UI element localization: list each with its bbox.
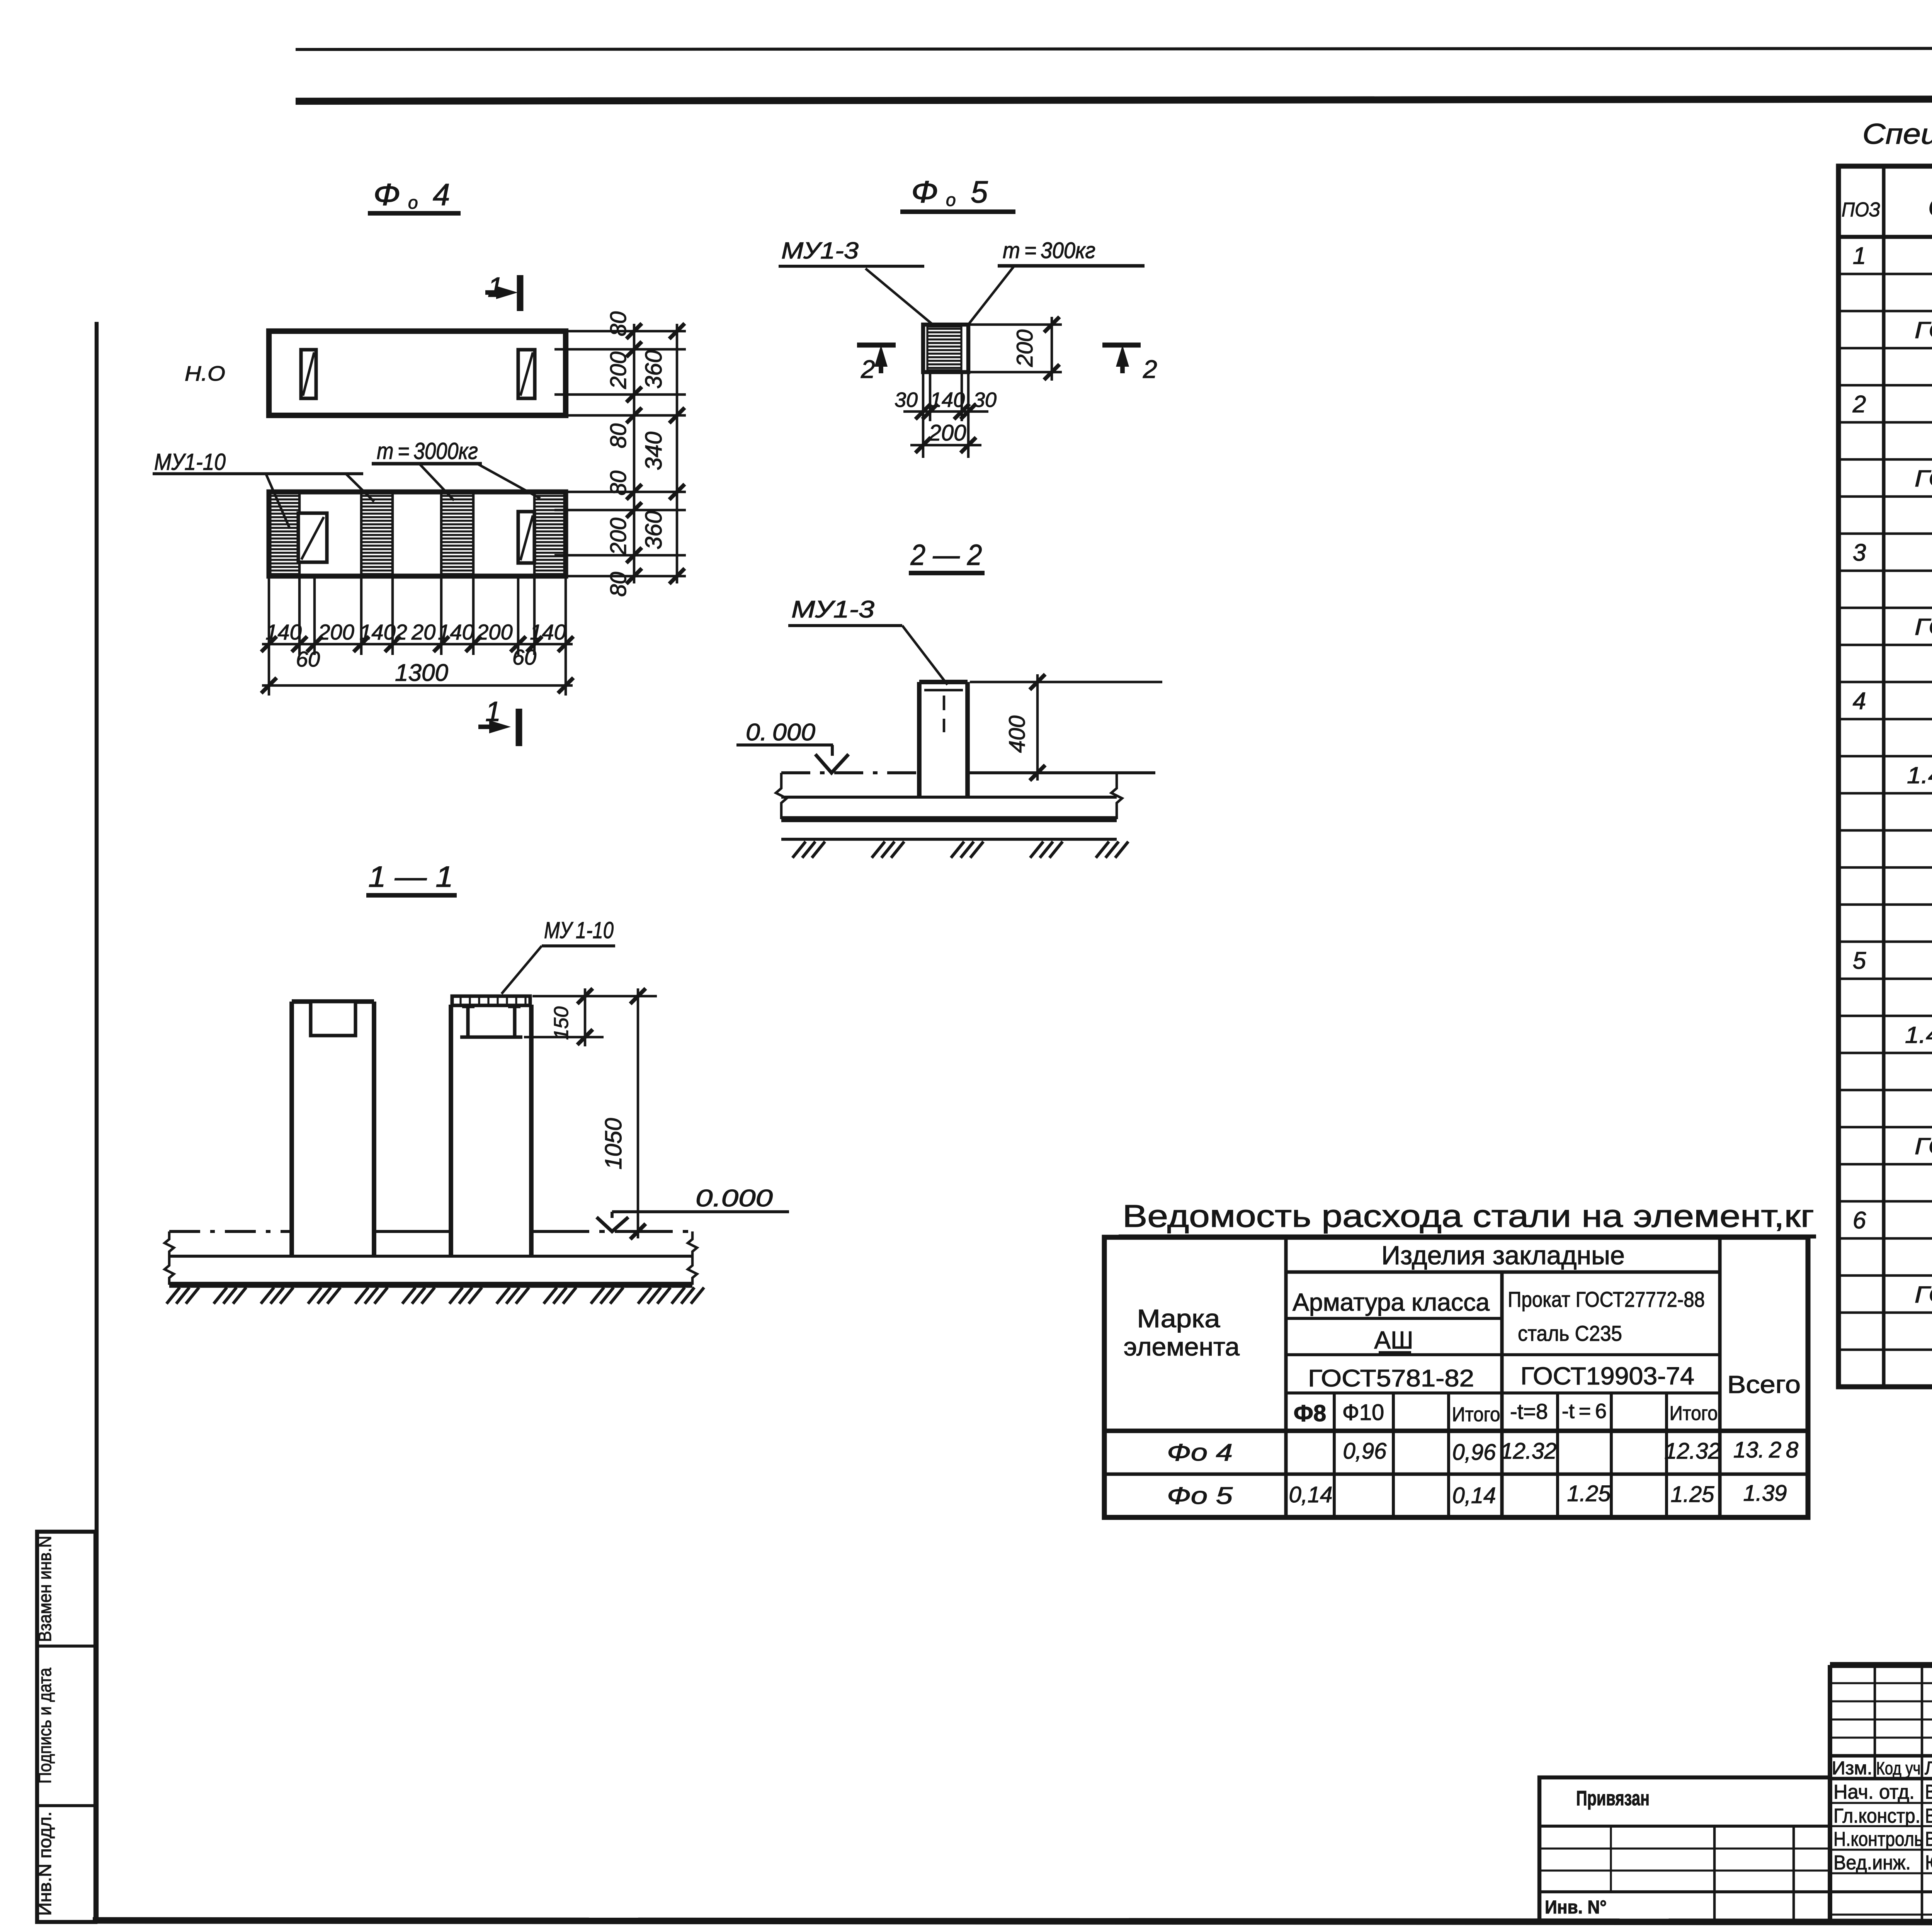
dim 1050 (1-1) (600, 988, 646, 1239)
svg-text:1.25: 1.25 (1567, 1481, 1611, 1506)
svg-text:Прокат ГОСТ27772-88: Прокат ГОСТ27772-88 (1508, 1287, 1705, 1311)
svg-text:Гл.констр.: Гл.констр. (1833, 1805, 1920, 1827)
title block outer frame (1830, 1665, 1932, 1922)
ground hatch (1-1) (167, 1287, 704, 1304)
dim 200 (right of Fo5) (970, 317, 1062, 381)
dim labels 360/340/360 (641, 350, 667, 549)
vedomost header texts (1124, 1241, 1801, 1426)
view title Fo5 (900, 175, 1015, 212)
svg-text:200: 200 (1012, 330, 1037, 367)
privyazan box (1539, 1777, 1830, 1922)
svg-text:30: 30 (973, 388, 997, 412)
svg-text:-t = 6: -t = 6 (1562, 1400, 1607, 1423)
svg-text:ГОСТ 25192 - 82: ГОСТ 25192 - 82 (1915, 1282, 1932, 1308)
view title 1-1 (366, 861, 457, 895)
svg-text:80: 80 (606, 471, 631, 496)
left column (1-1) (292, 1002, 374, 1256)
slab bottom thick line (2-2) (781, 816, 1117, 822)
page frame: top border double line (296, 48, 1932, 101)
vedomost data row Fo4 (1167, 1437, 1798, 1466)
table title: Vedomost raskhoda stali (1119, 1199, 1816, 1236)
svg-text:Взамен инв.N: Взамен инв.N (35, 1536, 55, 1642)
section mark 1 (bottom) (478, 696, 519, 746)
svg-text:360: 360 (641, 511, 667, 549)
svg-text:m = 300кг: m = 300кг (1003, 238, 1095, 263)
svg-text:0,96: 0,96 (1452, 1440, 1497, 1465)
svg-text:Ф: Ф (911, 175, 938, 209)
spec table header texts (1842, 191, 1932, 222)
signature row: Gl.konstr. Vorobyeva (1833, 1805, 1932, 1834)
extension lines below Fo4 lower plan (269, 578, 566, 696)
svg-text:1.25: 1.25 (1671, 1482, 1715, 1507)
svg-text:0,14: 0,14 (1452, 1483, 1496, 1508)
svg-text:Воробьева: Воробьева (1925, 1805, 1932, 1827)
svg-text:140: 140 (359, 620, 395, 644)
svg-text:Ф: Ф (373, 177, 400, 212)
label MU1-10 with leader (1-1) (502, 917, 615, 994)
label MU1-3 with leader (779, 238, 935, 327)
view title Fo4 (368, 177, 461, 213)
svg-text:элемента: элемента (1124, 1332, 1240, 1361)
slab bottom thick line (1-1) (169, 1282, 692, 1288)
slab break marks (2-2) (776, 773, 1122, 819)
svg-text:80: 80 (606, 423, 631, 449)
svg-text:200: 200 (318, 620, 354, 644)
section mark 1 (top) (485, 272, 520, 311)
signature rows grid (1830, 1779, 1932, 1922)
slab top line (2-2) (781, 771, 1155, 774)
svg-text:4: 4 (433, 177, 450, 212)
svg-text:0. 000: 0. 000 (746, 719, 815, 746)
vertical dimension line (360/340/360) (669, 323, 685, 584)
svg-text:140: 140 (438, 620, 474, 644)
svg-text:0,96: 0,96 (1343, 1439, 1387, 1464)
svg-text:80: 80 (606, 311, 631, 337)
level mark 0.000 (2-2) (736, 719, 849, 773)
svg-text:о: о (408, 192, 418, 213)
embedded plate mark (lower plan, right) (518, 512, 534, 563)
revision header labels (1832, 1758, 1932, 1779)
svg-text:АШ: АШ (1374, 1326, 1413, 1354)
extension lines right of Fo4 plans (554, 331, 686, 576)
svg-text:ГОСТ19903-74: ГОСТ19903-74 (1520, 1362, 1694, 1390)
svg-text:сталь С235: сталь С235 (1518, 1321, 1622, 1345)
svg-text:Фо 4: Фо 4 (1167, 1439, 1233, 1466)
signature row: Nach. otd. Vorobyeva (1833, 1781, 1932, 1810)
svg-text:1300: 1300 (395, 660, 448, 686)
svg-text:ГОСТ5781-82: ГОСТ5781-82 (1308, 1365, 1474, 1392)
dims 30/140/30 and 200 below Fo5 (895, 372, 997, 458)
svg-text:5: 5 (971, 175, 988, 209)
revision table small grid (1830, 1665, 1932, 1779)
svg-text:200: 200 (476, 620, 512, 644)
page frame: bottom border (93, 1920, 1932, 1923)
label m=300kg with leader (967, 238, 1145, 327)
svg-text:0,14: 0,14 (1289, 1482, 1333, 1507)
svg-text:ПОЗ: ПОЗ (1842, 199, 1880, 221)
embedded plate mark (upper plan, left) (301, 350, 316, 398)
svg-text:Воробьева: Воробьева (1925, 1781, 1932, 1803)
svg-text:Ф8: Ф8 (1294, 1400, 1327, 1426)
embedded plate mark (lower plan, left) (298, 513, 327, 562)
spec table grid (1838, 166, 1932, 1387)
dim 400 (2-2) (970, 674, 1162, 781)
slab middle line (1-1) (169, 1255, 692, 1258)
svg-text:140: 140 (530, 620, 566, 644)
anchor box in right column (460, 1005, 522, 1037)
svg-text:о: о (946, 190, 956, 210)
embedded plate MU1-10 on right column (452, 996, 530, 1005)
dimension line 1300 (261, 660, 573, 693)
svg-text:Всего: Всего (1727, 1371, 1801, 1398)
dim 150 (1-1) (524, 988, 657, 1046)
svg-text:Подпись и дата: Подпись и дата (35, 1668, 55, 1784)
svg-text:Изм.: Изм. (1832, 1758, 1872, 1779)
svg-text:m = 3000кг: m = 3000кг (377, 438, 478, 464)
svg-text:-t=8: -t=8 (1510, 1399, 1548, 1423)
svg-text:0.000: 0.000 (696, 1185, 773, 1212)
svg-text:140: 140 (930, 388, 965, 412)
svg-text:1050: 1050 (600, 1118, 626, 1169)
svg-text:Итого: Итого (1670, 1402, 1718, 1425)
Fo4 lower plan band (269, 492, 566, 576)
Fo5 plan square (923, 325, 968, 372)
dim labels 60 / 60 (296, 645, 536, 671)
svg-text:1.400.2 - 25.93 Вып. 1: 1.400.2 - 25.93 Вып. 1 (1905, 1022, 1932, 1048)
right column (1-1) (451, 1005, 531, 1256)
svg-text:Арматура класса: Арматура класса (1293, 1288, 1490, 1316)
ground line with hatch (2-2) (781, 839, 1128, 858)
svg-text:Изделия закладные: Изделия закладные (1381, 1241, 1625, 1270)
slab middle line (2-2) (781, 796, 1117, 799)
svg-text:Ведомость расхода стали на эле: Ведомость расхода стали на элемент,кг (1122, 1199, 1814, 1234)
level mark 0.000 (1-1) (597, 1185, 789, 1231)
svg-text:13. 2 8: 13. 2 8 (1733, 1437, 1798, 1463)
svg-text:Итого: Итого (1452, 1403, 1500, 1426)
vertical dimension line (80/200/80) (626, 323, 642, 584)
view title 2-2 (909, 539, 985, 573)
svg-text:ГОСТ 25192 - 82: ГОСТ 25192 - 82 (1915, 317, 1932, 343)
svg-text:Код уч: Код уч (1876, 1758, 1921, 1778)
svg-text:4: 4 (1853, 688, 1866, 714)
left strip boxes (37, 1532, 95, 1922)
svg-text:140: 140 (265, 620, 301, 644)
svg-text:Фо 5: Фо 5 (1167, 1483, 1233, 1509)
label MU1-10 with leader (153, 449, 363, 529)
svg-text:150: 150 (550, 1007, 573, 1040)
svg-text:1: 1 (1853, 243, 1866, 269)
svg-text:12.32: 12.32 (1664, 1439, 1720, 1464)
slab break marks (1-1) (165, 1231, 697, 1285)
svg-text:Привязан: Привязан (1576, 1787, 1650, 1810)
Fo5 hatched plate (927, 327, 961, 370)
svg-text:Обозначение: Обозначение (1928, 192, 1932, 222)
svg-text:Нач. отд.: Нач. отд. (1833, 1781, 1915, 1803)
svg-text:Воробьева: Воробьева (1925, 1828, 1932, 1850)
svg-text:1.400.2 - 25.93 Вып. 1: 1.400.2 - 25.93 Вып. 1 (1907, 762, 1932, 788)
vedomost data row Fo5 (1167, 1481, 1787, 1509)
embedded plate mark (upper plan, right) (518, 350, 535, 398)
svg-text:60: 60 (296, 647, 320, 671)
dim labels 80/200/80 (lower) (606, 471, 631, 597)
section mark 2 (right) (1102, 345, 1157, 383)
svg-text:400: 400 (1005, 716, 1030, 753)
signature row: N.kontrol Vorobyeva (1833, 1828, 1932, 1850)
svg-text:2 — 2: 2 — 2 (910, 539, 982, 571)
svg-text:ГОСТ 25192 -82: ГОСТ 25192 -82 (1915, 614, 1932, 640)
svg-text:2: 2 (861, 355, 875, 383)
svg-text:ГОСТ 25192 - 82: ГОСТ 25192 - 82 (1915, 1133, 1932, 1159)
svg-text:60: 60 (512, 645, 536, 669)
svg-text:ГОСТ 25192 - 82: ГОСТ 25192 - 82 (1915, 466, 1932, 492)
hatched strip 1 (269, 492, 299, 576)
svg-text:5: 5 (1853, 947, 1866, 974)
svg-text:2: 2 (1143, 355, 1157, 383)
anchor blockout in left column (311, 1002, 355, 1036)
Fo4 upper plan rectangle (269, 331, 566, 415)
hatched strip 4 (534, 492, 566, 576)
svg-text:Марка: Марка (1137, 1304, 1220, 1333)
svg-text:Юдакова: Юдакова (1925, 1852, 1932, 1874)
svg-text:Спецификация на монолитные: Спецификация на монолитные фундаменты (1862, 118, 1932, 150)
svg-text:3: 3 (1853, 539, 1866, 566)
svg-text:2 20: 2 20 (395, 620, 436, 644)
svg-text:12.32: 12.32 (1500, 1439, 1556, 1464)
svg-text:2: 2 (1852, 391, 1866, 418)
svg-text:Вед.инж.: Вед.инж. (1833, 1852, 1911, 1874)
svg-text:360: 360 (641, 350, 667, 389)
svg-text:Инв. N°: Инв. N° (1545, 1897, 1607, 1918)
page frame: left border (95, 322, 99, 1922)
svg-text:Инв.N подл.: Инв.N подл. (35, 1811, 55, 1916)
svg-text:80: 80 (606, 572, 631, 597)
svg-text:МУ1-3: МУ1-3 (791, 596, 874, 623)
svg-text:200: 200 (606, 518, 631, 556)
hatched strip 2 (361, 492, 393, 576)
svg-text:Ф10: Ф10 (1342, 1400, 1384, 1425)
svg-text:МУ 1-10: МУ 1-10 (544, 917, 614, 943)
svg-text:Н.контроль: Н.контроль (1833, 1828, 1923, 1850)
svg-text:30: 30 (895, 388, 918, 412)
svg-text:340: 340 (641, 432, 667, 470)
slab top line (1-1) (169, 1230, 692, 1233)
section mark 2 (left) (857, 345, 896, 383)
svg-text:200: 200 (929, 420, 966, 446)
column centerline (dashed) (943, 696, 946, 732)
signature row: Ved.inzh. Yudakova (1833, 1852, 1932, 1874)
svg-text:МУ1-3: МУ1-3 (781, 238, 859, 264)
svg-text:1.39: 1.39 (1743, 1481, 1787, 1506)
svg-text:200: 200 (606, 352, 631, 389)
svg-text:1 — 1: 1 — 1 (368, 861, 453, 893)
svg-text:Н.О: Н.О (185, 362, 225, 385)
label MU1-3 with leader (section 2-2) (788, 596, 947, 685)
svg-text:МУ1-10: МУ1-10 (154, 449, 226, 475)
label m=3000kg with leaders (346, 438, 540, 502)
svg-text:Лист: Лист (1925, 1758, 1932, 1779)
vedomost table grid (1104, 1237, 1808, 1517)
column of section 2-2 (919, 682, 968, 797)
hatched strip 3 (441, 492, 473, 576)
svg-text:6: 6 (1853, 1207, 1866, 1234)
dimension line 140/200/140/220/140/200/140 (261, 620, 573, 652)
dim labels 80/200/80 (upper) (606, 311, 631, 449)
